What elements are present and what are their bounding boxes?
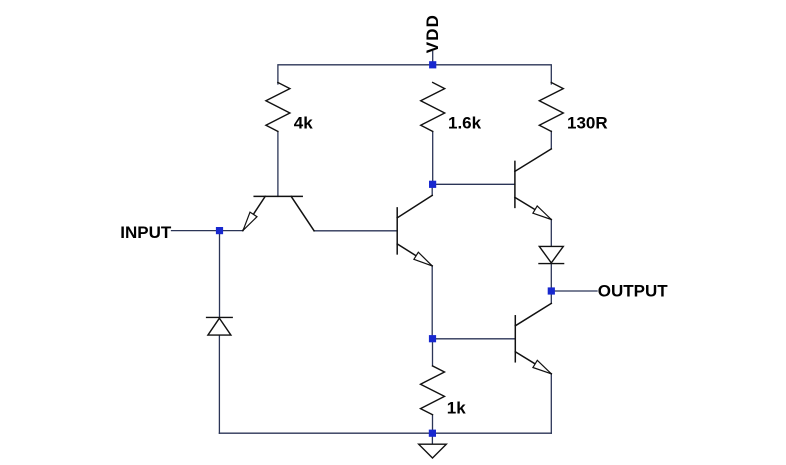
transistor Q4 bottom output — [515, 303, 551, 373]
svg-text:130R: 130R — [567, 114, 608, 133]
svg-text:1k: 1k — [447, 399, 466, 418]
wire Q3 emitter to D2 anode — [550, 220, 552, 247]
node A junction — [429, 181, 436, 188]
svg-text:VDD: VDD — [423, 14, 442, 53]
wire R1 bottom to Q1 base — [277, 132, 279, 197]
wire bottom rail — [219, 432, 551, 434]
wire Q2 emitter to node B — [431, 266, 433, 339]
wire Q2 collector vertical — [431, 184, 433, 195]
transistor Q1 input — [243, 196, 314, 230]
resistor R4 1k zigzag — [421, 366, 445, 415]
wire top rail VDD — [278, 65, 551, 84]
wire Q1 collector to Q2 base — [314, 230, 397, 232]
svg-text:4k: 4k — [294, 114, 313, 133]
wire Q4 emitter to bottom rail — [550, 374, 552, 433]
svg-text:OUTPUT: OUTPUT — [598, 282, 669, 301]
diode D1 input clamp — [207, 317, 233, 335]
node OUTPUT junction — [548, 287, 555, 294]
wire INPUT node to D1 cathode — [219, 231, 221, 318]
ground — [419, 444, 447, 458]
transistor Q2 phase splitter — [397, 195, 432, 266]
diode D2 output level shift — [539, 246, 564, 263]
resistor R2 1.6k zigzag — [421, 83, 445, 132]
wire R2 bottom to node A — [432, 132, 434, 185]
wire R4 bottom to ground node — [432, 415, 434, 433]
wire node B to R4 top — [432, 339, 434, 366]
wire node B to Q4 base — [433, 338, 516, 340]
resistor R3 130R zigzag — [539, 83, 563, 132]
transistor Q3 top output — [515, 149, 551, 220]
node INPUT junction — [216, 227, 223, 234]
svg-text:1.6k: 1.6k — [448, 113, 482, 132]
wire ground node to ground symbol — [431, 433, 433, 444]
wire INPUT to Q1 emitter — [172, 230, 244, 232]
wire node A to Q3 base — [433, 183, 515, 185]
node B junction — [429, 335, 436, 342]
node VDD junction — [429, 61, 436, 68]
wire D2 cathode to OUTPUT node to Q4 collector — [550, 264, 552, 304]
wire OUTPUT node to label — [551, 290, 597, 292]
node ground junction — [429, 430, 436, 437]
resistor R1 4k zigzag — [266, 83, 290, 132]
wire VDD stub — [432, 52, 434, 65]
svg-text:INPUT: INPUT — [120, 223, 172, 242]
wire D1 anode to bottom rail — [218, 335, 220, 433]
wire R3 bottom to Q3 collector — [550, 131, 552, 149]
